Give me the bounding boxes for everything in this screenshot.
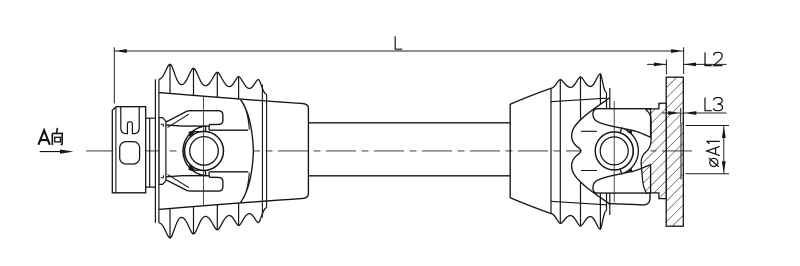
dimension L2 line left — [647, 63, 666, 65]
dimension L3 arrow left — [668, 111, 681, 115]
hub neck — [146, 118, 156, 187]
right guard bellows ribs — [560, 74, 600, 230]
dimension L3 arrow right — [684, 111, 697, 115]
left bell mouth inner corner arcs — [244, 104, 250, 199]
left bearing cup top inner edge — [190, 131, 209, 133]
dimension L extension line left — [113, 47, 115, 103]
wire centerline left joint vertical — [203, 97, 205, 207]
left guard bellows ribs — [170, 64, 239, 238]
flange hub section (hatched) — [641, 103, 666, 198]
left guard cone outline — [159, 93, 309, 210]
right guard cone face — [509, 104, 511, 198]
left bearing cup — [183, 126, 206, 176]
dimension L2 arrow right — [684, 63, 697, 67]
collar outer body — [112, 107, 145, 193]
left guard bellows bottom wave — [159, 208, 267, 238]
left guard mouth edge (double line) — [155, 79, 159, 223]
label L — [395, 36, 402, 49]
right bearing outer circle — [595, 132, 633, 170]
left guard bellows top wave — [159, 64, 267, 94]
left yoke lower ear inner ridge — [168, 174, 189, 187]
label diameter A1 — [707, 141, 720, 166]
dimension L arrow right — [671, 49, 684, 53]
dimension L2 extension line — [665, 59, 667, 74]
right cup upper wedge — [627, 130, 633, 135]
right guard cone outline — [510, 88, 551, 213]
right guard bellows bottom wave — [551, 211, 606, 230]
right inner yoke silhouette — [572, 98, 651, 204]
left bearing cup bottom inner edge — [190, 169, 209, 171]
dimension L3 extension line — [680, 108, 682, 124]
left cup upper wedge — [188, 132, 195, 137]
dimension L3 line left — [662, 112, 681, 114]
dimension A1 extension line top — [686, 125, 730, 127]
right guard base lines — [551, 98, 606, 205]
flange pilot recess line — [680, 124, 682, 180]
dimension A1 arrow top — [722, 126, 726, 139]
right yoke body bottom shoulder — [608, 193, 650, 205]
left yoke upper ear inner ridge — [168, 114, 189, 127]
label L2 — [705, 52, 723, 65]
collar pin window — [120, 142, 140, 164]
left yoke hub plate — [159, 118, 166, 185]
view direction arrow — [40, 151, 62, 153]
wire tube bottom line — [308, 175, 510, 177]
right yoke lower ear — [593, 165, 651, 194]
dimension A1 line — [723, 126, 725, 174]
dimension A1 extension line bottom — [686, 173, 730, 175]
dimension L2 arrow left — [654, 63, 667, 67]
left cup lower wedge — [188, 165, 195, 170]
dimension L2 line right — [684, 63, 727, 65]
dimension L arrow left — [114, 49, 127, 53]
dimension L extension line right — [683, 47, 685, 74]
left bearing outer circle — [185, 131, 224, 170]
label A (view direction) — [38, 130, 49, 144]
right bearing cup — [620, 128, 638, 174]
right bearing inner circle — [600, 137, 628, 165]
wire tube top line — [308, 122, 510, 124]
right guard bellows start edge — [550, 88, 552, 214]
dimension A1 arrow bottom — [722, 161, 726, 174]
dimension L line — [114, 50, 683, 52]
right guard rib3 front segment — [599, 194, 601, 205]
wire centerline right joint vertical — [613, 101, 615, 203]
left yoke upper ear — [161, 111, 223, 126]
collar left inner line — [115, 107, 117, 193]
flange disk section (hatched) — [666, 77, 683, 226]
collar U slot with finger — [121, 107, 139, 134]
right cup lower wedge — [627, 168, 633, 173]
left bearing inner circle — [190, 137, 219, 166]
left yoke hub plate notch — [161, 124, 164, 178]
label xiang (Chinese) strokes — [52, 128, 62, 145]
label L3 — [705, 98, 723, 111]
right inner yoke band lines — [581, 131, 597, 170]
right guard bellows top wave — [551, 74, 606, 93]
dimension L3 line right — [684, 112, 727, 114]
left guard bellows end edge (double line) — [262, 85, 266, 218]
right guard mouth edges — [607, 88, 610, 215]
left inner yoke silhouette (bell mouth) — [210, 130, 254, 172]
right yoke upper ear — [593, 109, 651, 138]
left yoke lower ear — [161, 176, 223, 191]
wire centerline main shaft axis — [86, 150, 692, 152]
